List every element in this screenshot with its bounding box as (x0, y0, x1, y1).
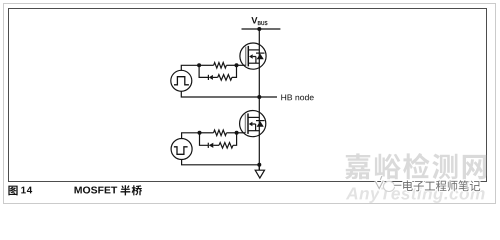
ground (255, 170, 264, 178)
wire D2 to R4 (213, 144, 219, 146)
watermark sketch icon (375, 176, 394, 192)
node A (top gate drive input node) (197, 63, 201, 67)
resistor R3 (turn-on gate resistor, low side) (214, 130, 227, 136)
schematic (171, 17, 314, 178)
node ground junction (257, 163, 261, 167)
watermark big gray text (345, 153, 486, 179)
label HB node (281, 94, 313, 100)
wire node C down to D2 (200, 133, 209, 146)
watermark small dark text (394, 180, 480, 191)
node C (bottom gate drive input node) (198, 131, 202, 135)
wire R3 to node D (227, 132, 237, 134)
diode D1 (turn-off path, high side) (208, 75, 213, 80)
wire VS1 top terminal to node A (181, 65, 199, 70)
node D (Q2 gate node) (235, 131, 239, 135)
watermark AnyTesting.com (346, 187, 485, 203)
resistor R2 (turn-off gate resistor, high side) (218, 75, 232, 81)
transistor Q1 (N-MOSFET with body diode) (240, 43, 266, 69)
wire R2 up to node B (232, 65, 237, 77)
wire R4 up to node D (233, 133, 237, 146)
wire R1 to node B (226, 64, 236, 66)
wire node B to Q1 gate (237, 64, 246, 66)
node HB junction (257, 95, 261, 99)
resistor R4 (turn-off gate resistor, low side) (219, 143, 233, 149)
wire node A to R1 (199, 64, 214, 66)
resistor R1 (turn-on gate resistor, high side) (214, 63, 227, 69)
caption (8, 185, 142, 195)
wire node A down to D1 (199, 65, 208, 77)
node V_BUS junction (257, 27, 261, 31)
transistor Q2 (N-MOSFET with body diode) (240, 111, 266, 137)
wire V_BUS rail (242, 28, 281, 30)
pulse source VS2 (low-side gate drive) (171, 139, 192, 160)
node B (Q1 gate node) (235, 63, 239, 67)
wire VS2 top terminal to node C (182, 133, 200, 139)
pulse source VS1 (high-side gate drive) (171, 70, 192, 91)
wire VS2 bottom terminal to ground rail (182, 159, 260, 164)
wire drain-source bus (V_BUS to ground) (258, 29, 260, 170)
wire VS1 bottom terminal to HB node (181, 91, 277, 97)
diode D2 (turn-off path, low side) (208, 143, 213, 148)
label V_BUS (251, 17, 267, 25)
wire D1 to R2 (213, 76, 218, 78)
wire node C to R3 (200, 132, 214, 134)
wire junction to ground symbol (258, 165, 260, 170)
wire node D to Q2 gate (237, 132, 246, 134)
